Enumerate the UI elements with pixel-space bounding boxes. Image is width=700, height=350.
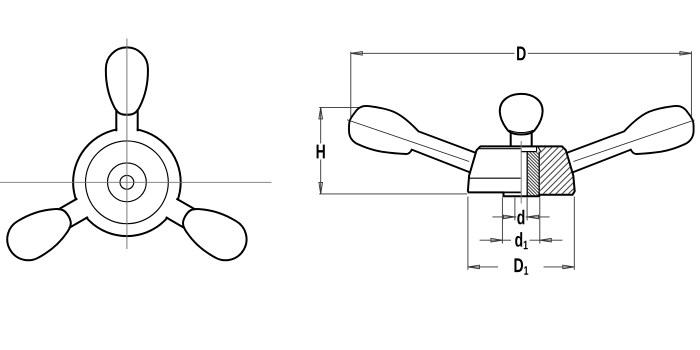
label D [517,47,526,61]
arrow d left [503,215,515,219]
top knob egg [500,94,543,135]
arrow D1 left [468,265,480,269]
counterbore chamfer [538,146,541,151]
horizontal centerline [0,181,272,183]
dimension d1 line left segment [480,239,511,241]
dimension d1 line right segment [530,239,563,241]
left arm with egg handle [343,99,482,182]
insert hatch (dense) [528,152,539,196]
arm 3 (lower-right): neck + egg handle [161,190,255,268]
counterbore wall [536,146,538,151]
vertical centerline [126,39,128,250]
dimension H line upper segment [320,108,322,144]
hub skirt bottom line over boss [504,191,521,193]
inner circle r19 [108,163,147,202]
center bore circle [120,175,134,189]
H bottom extension line [319,193,467,195]
dimension d line right segment [526,216,550,218]
dimension D1 line right segment [544,266,575,268]
dimension d [492,198,549,221]
arrow H top [319,107,323,119]
top knob neck [500,94,543,146]
label D1 [514,258,528,274]
hub cone/cylinder transition line [469,177,521,179]
insert top line [521,151,537,153]
dimension D line left segment [351,52,515,54]
D1 extension lines [467,197,469,270]
arrow H bottom [319,182,323,194]
hub top chamfer ring line [479,148,520,150]
dimension d line left segment [492,216,516,218]
arrow d1 left [491,238,503,242]
arrow D1 right [563,265,575,269]
arm 2 (lower-left): neck + egg handle [0,190,93,268]
d1 extension lines [501,198,503,244]
hub outer circle [73,129,181,237]
dimension D line right segment [528,52,692,54]
dimension H line lower segment [320,160,322,194]
arrow D right [680,52,692,56]
right view arms (under hub) [343,99,699,182]
dimension D line [351,51,692,120]
hub body [468,141,575,204]
dimension D1 [468,197,574,270]
dimension H [319,107,467,193]
label H [317,145,325,159]
hub outline [468,146,575,196]
top knob neck side lines [511,133,532,146]
right arm axis line [573,120,694,162]
left arm axis line [347,120,469,162]
arrow d1 right [540,238,552,242]
d extension lines [514,198,516,221]
H top extension line [319,106,366,108]
hub vertical centerline [520,141,522,204]
arrow d right [527,215,539,219]
right arm with egg handle [560,99,699,182]
outer plastic hatch [540,147,574,194]
arm 1 (top): neck + egg handle [106,47,148,131]
insert left edge [526,152,528,197]
label d [517,210,524,225]
label d1 [515,232,528,249]
dimension D extension lines [350,52,352,119]
inner circle r41 [86,141,169,224]
top knob bottom inner arc [509,130,533,132]
arrow D left [351,52,363,56]
dimension D1 line left segment [468,266,498,268]
dimension d1 [480,198,563,244]
insert right edge [538,152,540,195]
top knob neck fill [511,132,532,146]
